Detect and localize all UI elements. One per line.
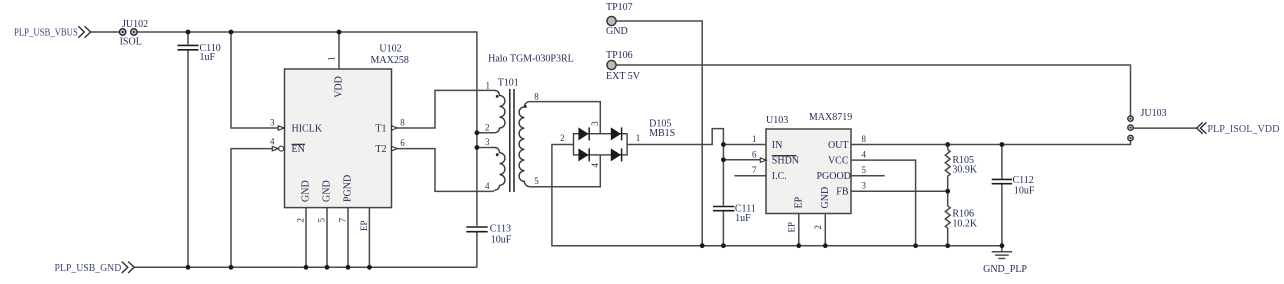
svg-text:2: 2: [296, 218, 306, 223]
svg-text:30.9K: 30.9K: [952, 165, 978, 176]
svg-text:3: 3: [590, 121, 600, 126]
svg-text:PGOOD: PGOOD: [816, 171, 850, 182]
svg-text:GND: GND: [322, 180, 333, 202]
svg-text:3: 3: [862, 181, 867, 191]
svg-text:FB: FB: [836, 187, 849, 198]
svg-text:10.2K: 10.2K: [952, 219, 978, 230]
svg-text:C113: C113: [490, 224, 511, 235]
svg-text:EP: EP: [359, 220, 369, 231]
svg-text:7: 7: [752, 165, 757, 175]
svg-text:U102: U102: [379, 44, 401, 55]
svg-text:U103: U103: [766, 115, 788, 126]
svg-text:1: 1: [636, 133, 641, 143]
svg-text:C112: C112: [1013, 175, 1034, 186]
svg-text:TP106: TP106: [606, 50, 633, 61]
svg-text:1uF: 1uF: [735, 213, 751, 224]
svg-text:8: 8: [534, 92, 539, 102]
svg-text:1: 1: [752, 134, 757, 144]
svg-text:OUT: OUT: [828, 140, 849, 151]
svg-text:ISOL: ISOL: [120, 37, 142, 48]
svg-text:SHDN: SHDN: [772, 156, 799, 167]
svg-text:MAX8719: MAX8719: [809, 112, 852, 123]
svg-text:PLP_USB_GND: PLP_USB_GND: [55, 262, 122, 274]
svg-text:EP: EP: [787, 222, 797, 233]
svg-text:GND: GND: [820, 187, 831, 209]
svg-text:HICLK: HICLK: [292, 123, 323, 134]
svg-text:JU102: JU102: [122, 19, 148, 30]
svg-text:4: 4: [590, 163, 600, 168]
svg-text:T2: T2: [375, 144, 386, 155]
svg-text:GND: GND: [301, 180, 312, 202]
svg-text:PGND: PGND: [343, 175, 354, 202]
svg-text:EXT 5V: EXT 5V: [606, 71, 641, 82]
svg-text:2: 2: [485, 123, 490, 133]
svg-text:2: 2: [813, 225, 823, 230]
svg-text:VDD: VDD: [334, 76, 345, 98]
svg-text:6: 6: [752, 149, 757, 159]
svg-text:5: 5: [317, 218, 327, 223]
svg-text:EP: EP: [794, 196, 805, 208]
svg-text:3: 3: [270, 118, 275, 128]
svg-text:4: 4: [485, 181, 490, 191]
svg-text:MB1S: MB1S: [649, 128, 675, 139]
svg-text:10uF: 10uF: [1014, 185, 1035, 196]
svg-text:6: 6: [400, 138, 405, 148]
svg-text:IN: IN: [772, 140, 783, 151]
svg-text:GND_PLP: GND_PLP: [983, 264, 1027, 275]
svg-text:10uF: 10uF: [491, 234, 512, 245]
svg-text:I.C.: I.C.: [772, 171, 787, 182]
svg-text:1uF: 1uF: [200, 52, 216, 63]
svg-text:JU103: JU103: [1141, 108, 1167, 119]
svg-text:GND: GND: [606, 26, 628, 37]
svg-text:T101: T101: [498, 78, 519, 89]
svg-text:4: 4: [862, 149, 867, 159]
svg-text:PLP_ISOL_VDD: PLP_ISOL_VDD: [1207, 123, 1279, 135]
svg-text:8: 8: [400, 118, 405, 128]
svg-text:VCC: VCC: [828, 156, 849, 167]
svg-text:1: 1: [327, 57, 337, 62]
svg-text:PLP_USB_VBUS: PLP_USB_VBUS: [14, 27, 78, 39]
svg-text:T1: T1: [375, 123, 386, 134]
svg-text:1: 1: [486, 81, 491, 91]
svg-text:MAX258: MAX258: [371, 55, 409, 66]
svg-text:EN: EN: [292, 144, 305, 155]
svg-text:3: 3: [485, 137, 490, 147]
svg-text:5: 5: [534, 176, 539, 186]
svg-text:2: 2: [560, 133, 565, 143]
svg-text:TP107: TP107: [606, 2, 633, 13]
svg-text:7: 7: [338, 218, 348, 223]
svg-text:4: 4: [270, 137, 275, 147]
svg-text:Halo TGM-030P3RL: Halo TGM-030P3RL: [488, 53, 574, 64]
svg-text:8: 8: [862, 134, 867, 144]
svg-text:5: 5: [862, 165, 867, 175]
